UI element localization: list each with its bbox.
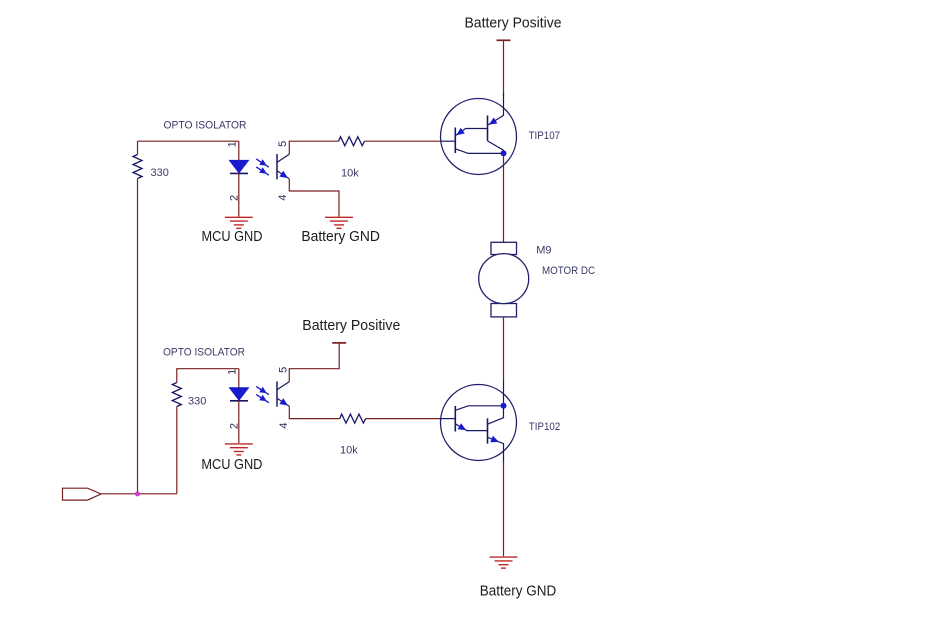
ground: Battery GND (bottom of rail) <box>490 557 518 568</box>
TIP102 Q1 base bar <box>454 406 456 432</box>
svg-text:OPTO ISOLATOR: OPTO ISOLATOR <box>164 120 247 132</box>
TIP102 collector junction dot <box>501 403 507 409</box>
wire: battery positive down to TIP107 emitter <box>503 40 505 96</box>
wire: left rail from 330 down to input junction <box>137 179 139 494</box>
TIP102 Q1 collector <box>455 406 501 411</box>
TIP107 Q1 emitter with arrow into bar <box>456 129 488 136</box>
TIP102 Q1 emitter with arrow to Q2 base <box>455 424 487 431</box>
ground: MCU GND (top) <box>225 217 253 228</box>
LED D1 of top opto (anode triangle + cathode bar) <box>230 160 249 173</box>
svg-text:MCU GND: MCU GND <box>201 457 262 473</box>
resistor 330 (top) <box>133 155 142 179</box>
light arrows of top opto coupler <box>256 159 269 175</box>
wire: collector pin 5 up and right to Battery Positive bar <box>289 343 339 382</box>
svg-text:Battery Positive: Battery Positive <box>465 16 562 32</box>
TIP102 Q2 collector <box>488 408 504 424</box>
svg-text:5: 5 <box>278 367 290 373</box>
svg-text:4: 4 <box>277 194 289 200</box>
phototransistor collector diagonal (bottom opto) <box>277 382 289 390</box>
svg-text:MCU GND: MCU GND <box>202 229 263 245</box>
svg-text:2: 2 <box>228 195 240 201</box>
wire: LED cathode pin 2 down to MCU GND (bottom) <box>238 401 240 443</box>
wire: emitter pin 4 down then right then down to Battery GND <box>289 179 339 217</box>
wire: 10k to TIP107 base <box>365 140 442 142</box>
svg-text:330: 330 <box>151 167 169 179</box>
svg-text:M9: M9 <box>536 244 551 256</box>
wire: LED cathode pin 2 down to MCU GND <box>238 173 240 216</box>
phototransistor emitter diagonal with arrow (top opto) <box>277 171 289 179</box>
svg-text:TIP107: TIP107 <box>529 130 561 142</box>
TIP107 base pin <box>440 140 455 142</box>
svg-text:Battery GND: Battery GND <box>480 583 557 599</box>
transistor U2 TIP102 (NPN darlington) <box>440 381 517 463</box>
TIP102 base pin <box>440 418 455 420</box>
wire: LED anode pin 1 (bottom opto) <box>238 369 240 388</box>
TIP107 Q1 collector <box>455 149 501 154</box>
svg-text:Battery GND: Battery GND <box>301 229 380 245</box>
resistor 10k (top) <box>339 137 365 146</box>
phototransistor emitter diagonal with arrow (bottom opto) <box>277 398 289 406</box>
resistor 10k (bottom) <box>340 414 366 423</box>
resistor 330 (bottom) <box>172 383 181 407</box>
svg-text:2: 2 <box>228 423 240 429</box>
TIP107 Q2 emitter pin with arrow into bar <box>488 93 503 125</box>
SECTION: top opto isolator channel <box>133 120 441 494</box>
wire: TIP102 emitter down to Battery GND <box>503 461 505 557</box>
TIP107 Q1 base bar <box>454 128 456 154</box>
wire: riser to bottom 330 resistor <box>176 407 178 494</box>
TIP107 Q2 collector <box>488 141 504 152</box>
ground: Battery GND (top) <box>325 217 353 228</box>
wire: LED anode pin 1 (vertical) <box>238 141 240 160</box>
light arrows of bottom opto coupler <box>256 386 269 402</box>
svg-text:4: 4 <box>278 422 290 428</box>
svg-text:OPTO ISOLATOR: OPTO ISOLATOR <box>163 346 245 358</box>
TIP102 collector pin from top <box>503 381 505 403</box>
wire: 330 top to LED anode (bottom opto) <box>177 369 239 383</box>
ground: MCU GND (bottom) <box>225 444 253 455</box>
TIP107 collector junction dot <box>501 150 507 156</box>
wire: 10k to TIP102 base <box>366 418 441 420</box>
junction node (magenta dot) <box>135 491 140 496</box>
svg-text:MOTOR DC: MOTOR DC <box>542 265 595 277</box>
TIP102 Q2 base bar <box>487 418 489 443</box>
phototransistor base bar (bottom opto) <box>276 381 278 406</box>
motor M9 (DC motor symbol) <box>479 242 529 317</box>
svg-text:1: 1 <box>226 141 238 147</box>
wire: 330 top resistor to LED anode (horizontal) <box>138 140 239 142</box>
svg-text:5: 5 <box>277 141 289 147</box>
wire: collector pin 5 up and right to 10k <box>289 141 338 154</box>
SECTION: bottom opto isolator channel <box>63 318 442 500</box>
svg-text:1: 1 <box>226 369 238 375</box>
transistor U1 TIP107 (PNP darlington) <box>440 93 517 175</box>
svg-text:10k: 10k <box>340 445 358 457</box>
svg-text:10k: 10k <box>341 167 359 179</box>
power symbol: Battery Positive bar (bottom) <box>332 342 346 344</box>
SECTION: power rail / motor column <box>440 16 595 600</box>
phototransistor base bar (top opto) <box>276 154 278 179</box>
wire: TIP107 collector down to motor <box>503 156 505 242</box>
TIP107 Q2 base bar <box>487 116 489 141</box>
wire: motor to TIP102 collector <box>503 317 505 382</box>
power symbol: Battery Positive bar (top) <box>497 39 511 41</box>
input connector tag <box>63 488 102 500</box>
LED of bottom opto (anode triangle + cathode bar) <box>230 388 249 401</box>
phototransistor collector diagonal (top opto) <box>277 154 289 162</box>
TIP102 Q2 emitter pin with arrow <box>488 437 504 463</box>
svg-text:TIP102: TIP102 <box>529 421 561 433</box>
wire: input tag to bottom 330 column <box>101 493 177 495</box>
wire: stub from corner into resistor R(330) top <box>137 141 139 154</box>
wire: emitter pin 4 down then right to 10k (bottom) <box>289 406 339 418</box>
svg-text:Battery Positive: Battery Positive <box>302 318 400 334</box>
svg-text:330: 330 <box>188 396 206 408</box>
